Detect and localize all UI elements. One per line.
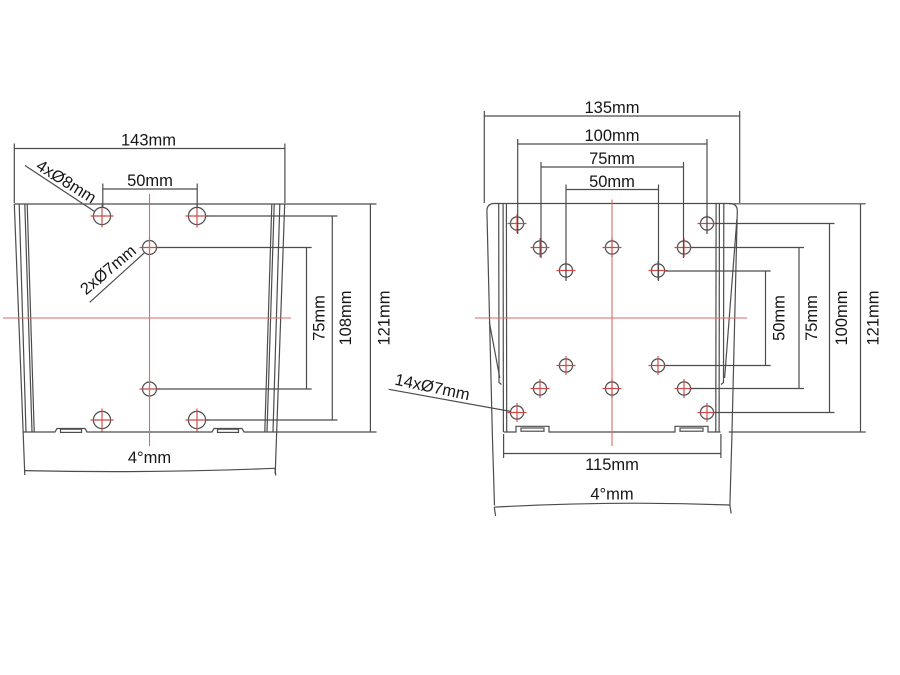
hole C9 [649,356,668,375]
left bend lines [19,204,34,432]
red centerline vertical right [611,200,613,447]
right plate right bend lines [716,204,724,432]
svg-text:4°mm: 4°mm [128,449,171,467]
dimension 50mm right side [666,271,789,366]
svg-text:2xØ7mm: 2xØ7mm [77,242,140,299]
dimension 115mm [504,434,721,474]
plate outline right [487,204,737,506]
svg-text:50mm: 50mm [589,173,635,191]
hole C6 [557,261,576,280]
label 4xO8mm [25,157,99,212]
hole C2 [698,214,717,233]
svg-text:50mm: 50mm [127,172,173,190]
svg-text:121mm: 121mm [376,290,394,345]
fold diagonal right [725,219,737,378]
red centerline vertical left [149,194,151,446]
svg-text:100mm: 100mm [584,127,639,145]
svg-text:4xØ8mm: 4xØ8mm [33,157,99,208]
dimension 100mm top [518,127,707,234]
hole B2 [140,379,160,399]
hole C4 [603,238,622,257]
svg-text:135mm: 135mm [584,99,639,117]
tab bars right plate [521,428,703,431]
dimension 75mm right side [691,248,821,389]
svg-text:143mm: 143mm [121,131,176,149]
hole C1 [508,214,527,233]
svg-text:115mm: 115mm [585,456,639,474]
plate outline left [14,204,284,475]
hole B1 [140,238,160,258]
tab bars left plate [61,429,239,432]
dimension 121mm left drawing [277,204,394,432]
label 14xO7mm [389,371,510,411]
hole A1 [91,205,114,228]
svg-text:50mm: 50mm [771,295,789,341]
svg-text:121mm: 121mm [865,290,883,345]
dimension 50mm top right drawing [566,173,659,281]
right bend lines [265,204,280,432]
red centerline horizontal left [3,317,291,319]
svg-text:75mm: 75mm [589,150,635,168]
svg-text:4°mm: 4°mm [590,486,633,504]
svg-text:108mm: 108mm [337,290,355,345]
hole C8 [557,356,576,375]
dimension 75mm top [541,150,684,258]
hole C7 [649,261,668,280]
bottom flange curve right [494,503,731,516]
fold diagonal left [489,322,500,378]
dimension 100mm right side [715,224,852,413]
dimension 50mm top [103,172,197,207]
dimension 135mm [484,99,739,203]
hole C11 [603,379,622,398]
hole C14 [698,403,717,422]
hole C5 [675,238,694,257]
bottom flange curve left [25,468,276,475]
svg-text:75mm: 75mm [311,295,329,341]
hole A2 [186,205,209,228]
label 2xO7mm [77,242,145,303]
hole A3 [91,409,114,432]
dimension 143mm [14,131,285,203]
dimension 75mm left drawing [157,248,329,390]
hole C12 [675,379,694,398]
hole C3 [531,238,550,257]
hole A4 [186,409,209,432]
red centerline horizontal right [475,317,747,319]
hole C10 [531,379,550,398]
dimension 121mm right side [729,204,883,432]
svg-text:75mm: 75mm [803,295,821,341]
dimension 108mm [206,216,355,420]
hole C13 [508,403,527,422]
svg-text:14xØ7mm: 14xØ7mm [393,371,471,404]
right plate left bend lines [499,204,507,432]
svg-text:100mm: 100mm [833,290,851,345]
